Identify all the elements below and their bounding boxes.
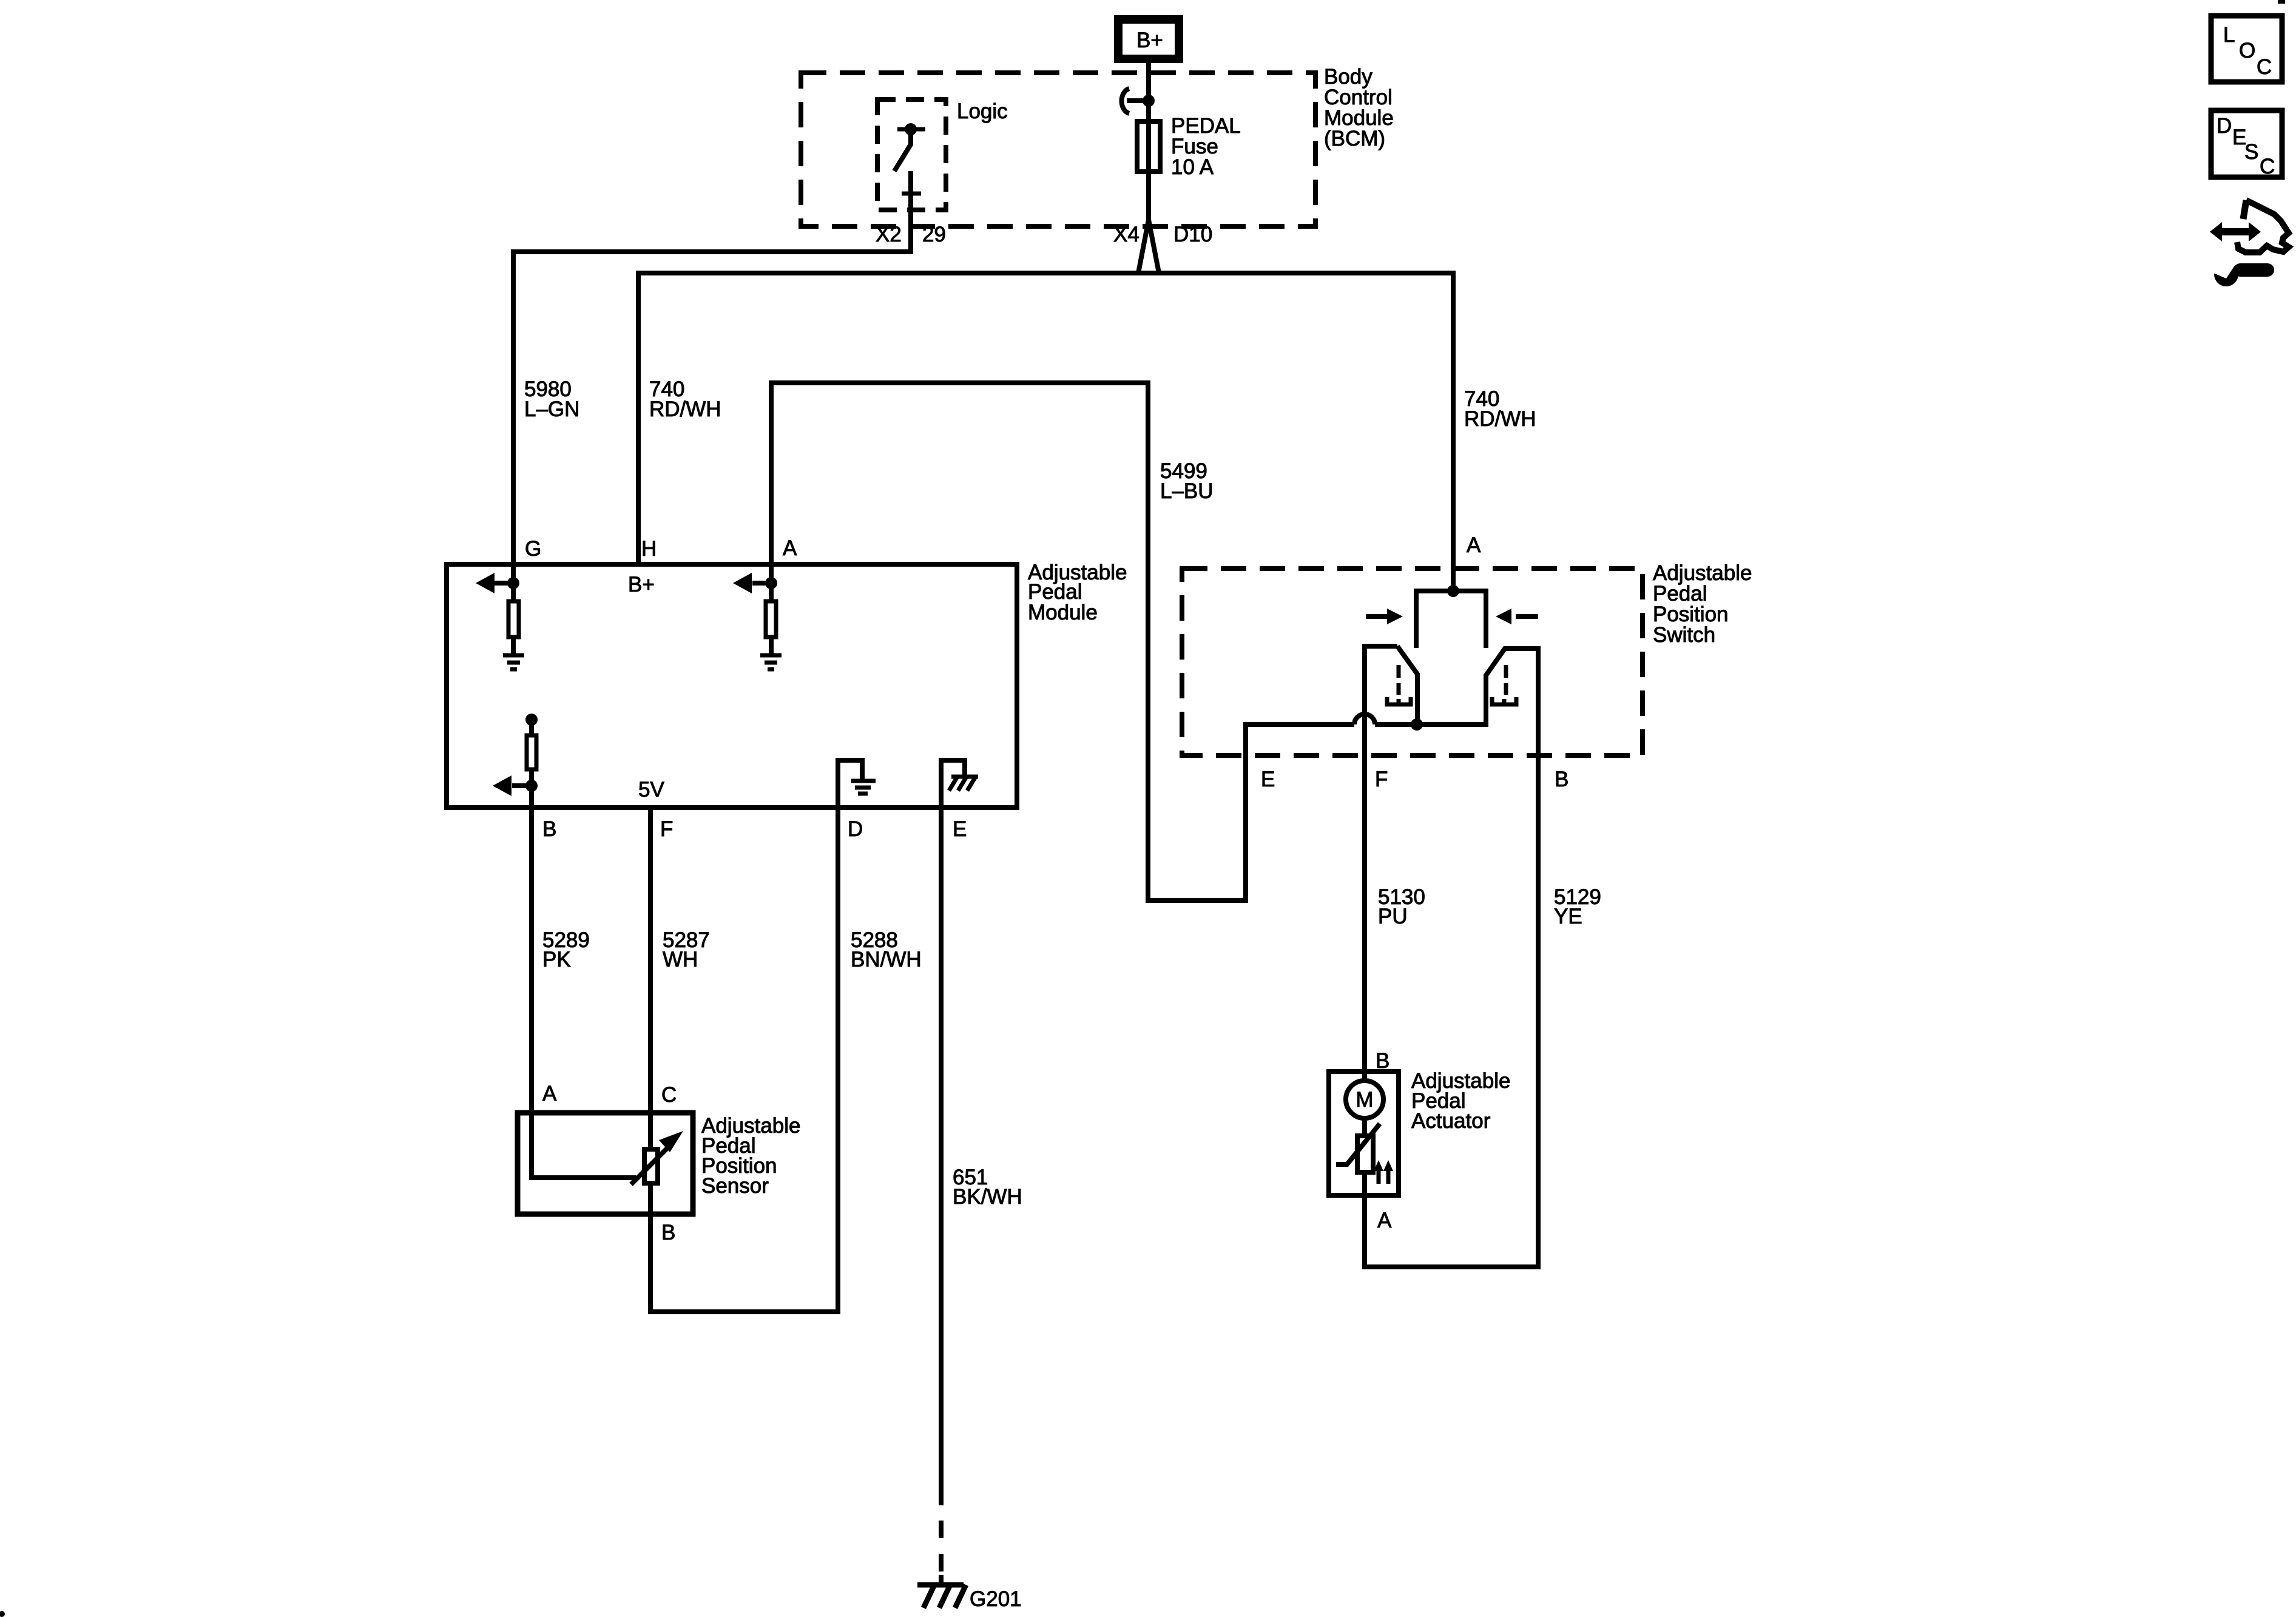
svg-text:B: B — [542, 817, 556, 841]
svg-text:B: B — [661, 1221, 675, 1244]
svg-text:B+: B+ — [628, 573, 655, 596]
svg-text:X2: X2 — [876, 223, 902, 246]
svg-text:C: C — [2257, 55, 2272, 79]
svg-text:D: D — [848, 817, 863, 841]
svg-text:C: C — [2260, 155, 2275, 178]
svg-text:YE: YE — [1554, 905, 1582, 928]
svg-text:RD/WH: RD/WH — [649, 397, 721, 421]
svg-text:H: H — [641, 537, 657, 561]
svg-text:B+: B+ — [1136, 29, 1163, 52]
svg-text:B: B — [1376, 1049, 1389, 1073]
svg-text:C: C — [661, 1083, 677, 1107]
svg-text:A: A — [542, 1082, 557, 1106]
svg-text:F: F — [660, 817, 673, 841]
svg-text:E: E — [1261, 768, 1275, 791]
svg-text:B: B — [1555, 768, 1568, 791]
svg-text:29: 29 — [922, 223, 946, 246]
svg-text:S: S — [2244, 140, 2258, 164]
svg-text:PU: PU — [1378, 905, 1408, 928]
svg-text:Sensor: Sensor — [701, 1174, 769, 1198]
svg-text:(BCM): (BCM) — [1324, 127, 1385, 150]
svg-text:Actuator: Actuator — [1411, 1109, 1491, 1133]
svg-text:10 A: 10 A — [1171, 155, 1214, 179]
svg-text:X4: X4 — [1113, 223, 1140, 246]
svg-text:A: A — [1377, 1209, 1392, 1232]
svg-text:G201: G201 — [970, 1587, 1022, 1611]
svg-text:A: A — [783, 536, 797, 560]
svg-text:A: A — [1467, 533, 1481, 557]
svg-text:O: O — [2239, 39, 2255, 62]
svg-text:D10: D10 — [1173, 223, 1212, 246]
svg-text:5V: 5V — [638, 778, 664, 802]
svg-text:M: M — [1356, 1088, 1373, 1112]
svg-text:PK: PK — [542, 948, 571, 971]
svg-text:L–GN: L–GN — [524, 397, 579, 421]
svg-text:WH: WH — [663, 948, 698, 971]
svg-text:BK/WH: BK/WH — [953, 1185, 1022, 1209]
svg-text:D: D — [2217, 114, 2232, 138]
svg-text:G: G — [525, 537, 541, 561]
svg-text:Switch: Switch — [1653, 623, 1715, 647]
svg-text:L–BU: L–BU — [1160, 479, 1214, 503]
svg-text:RD/WH: RD/WH — [1464, 407, 1536, 431]
svg-text:Module: Module — [1028, 601, 1098, 624]
svg-text:F: F — [1375, 768, 1388, 791]
svg-text:Logic: Logic — [957, 100, 1008, 123]
svg-text:BN/WH: BN/WH — [851, 948, 922, 971]
svg-text:L: L — [2223, 23, 2235, 47]
svg-text:E: E — [953, 817, 967, 841]
